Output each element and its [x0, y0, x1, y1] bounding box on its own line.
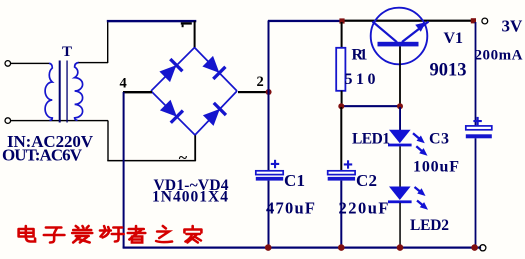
positive rail top left segment [268, 20, 342, 22]
bus junction C2 [338, 244, 345, 251]
svg-text:~: ~ [179, 149, 188, 166]
output terminal bottom [480, 245, 486, 251]
LED joining wire [399, 146, 401, 187]
wire bridge top lead [194, 21, 196, 48]
capacitor C2 plus [344, 160, 352, 168]
junction base node [397, 103, 403, 109]
node 4 wire [123, 91, 152, 93]
capacitor C3 plus [473, 117, 481, 125]
transistor collector diagonal [373, 22, 398, 43]
junction R1 top [339, 18, 344, 23]
output terminal top [482, 18, 488, 24]
LED2 bottom lead [399, 203, 401, 248]
wire AC return horizontal to bridge [107, 160, 196, 162]
wire AC return drop [107, 121, 108, 162]
char 子 [44, 228, 65, 243]
reference node wire [341, 105, 400, 107]
C1 bottom lead [268, 181, 270, 248]
svg-text:R1: R1 [352, 47, 368, 64]
svg-text:OUT:AC6V: OUT:AC6V [2, 146, 83, 165]
transformer T primary winding [45, 63, 52, 120]
LED1 top lead [399, 107, 401, 131]
LED2 arrow 1 [415, 187, 422, 192]
svg-text:3V: 3V [502, 17, 524, 36]
bridge edge top-left [151, 48, 195, 92]
svg-text:100uF: 100uF [413, 159, 459, 176]
bridge edge bottom-right [195, 91, 237, 135]
char 者 [128, 226, 146, 243]
LED2 cathode bar [388, 200, 412, 203]
LED1 triangle [389, 130, 411, 143]
capacitor C1 plus [271, 160, 279, 168]
bus junction C1 [265, 244, 272, 251]
LED2 triangle [389, 187, 411, 201]
capacitor C3 bottom plate [466, 134, 492, 138]
resistor R1 [336, 48, 345, 91]
bottom bus [123, 247, 482, 249]
char 家 [184, 226, 201, 243]
svg-text:1N4001X4: 1N4001X4 [152, 189, 228, 206]
bridge edge bottom-left [151, 91, 195, 135]
LED1 arrow 2 [416, 146, 423, 152]
svg-text:9013: 9013 [430, 61, 467, 81]
svg-text:220uF: 220uF [339, 199, 389, 218]
char 之 [156, 226, 172, 242]
wire top loop horizontal [107, 20, 197, 22]
capacitor C1 bottom plate [256, 177, 283, 181]
char 爱 [72, 226, 92, 243]
svg-text:200mA: 200mA [475, 48, 523, 64]
capacitor C2 bottom plate [328, 177, 355, 181]
svg-text:T: T [62, 44, 72, 60]
red site title 电子爱好者之家 [19, 226, 202, 243]
positive rail top right segment [342, 20, 474, 22]
transistor emitter arrow [415, 22, 426, 32]
bus junction LED [397, 244, 404, 251]
wire primary bottom / AC return [11, 120, 109, 121]
C3 top lead [475, 22, 477, 127]
svg-text:LED2: LED2 [410, 217, 449, 234]
node 2 junction dot [266, 89, 272, 95]
wire secondary riser [107, 21, 108, 63]
svg-text:4: 4 [120, 76, 127, 92]
char 电 [19, 226, 35, 242]
diode VD1 top-left [159, 58, 184, 83]
C2 top lead [340, 107, 342, 171]
svg-text:470uF: 470uF [266, 199, 315, 218]
transistor V1 circle [371, 8, 428, 65]
LED1 cathode bar [388, 144, 412, 147]
wire secondary top horizontal [79, 62, 109, 63]
transformer core line 1 [59, 61, 61, 123]
diode VD2 top-right [202, 55, 227, 80]
wire bridge bottom lead [194, 135, 196, 162]
C2 bottom lead [340, 181, 342, 248]
transformer core line 2 [66, 61, 67, 123]
junction R1 bottom [338, 103, 344, 109]
R1 bottom lead [341, 91, 343, 106]
terminal input bottom-left [5, 118, 11, 124]
R1 top lead [341, 22, 343, 48]
svg-text:C3: C3 [429, 131, 449, 148]
wire primary top [11, 63, 50, 64]
junction output [471, 18, 476, 23]
terminal input top-left [5, 61, 11, 67]
positive riser [268, 21, 270, 172]
char 好 [100, 226, 124, 242]
LED2 arrow 2 [417, 201, 424, 206]
diode VD3 bottom-left [159, 99, 184, 124]
svg-text:LED1: LED1 [352, 131, 390, 148]
negative rail [123, 92, 125, 248]
transistor emitter diagonal [402, 22, 429, 43]
svg-text:510: 510 [345, 71, 376, 88]
svg-text:C2: C2 [356, 171, 377, 190]
svg-text:2: 2 [257, 74, 264, 90]
transformer T secondary winding [75, 63, 83, 121]
bus junction C3 [471, 244, 478, 251]
AC mark top [181, 22, 192, 24]
svg-text:C1: C1 [284, 171, 305, 190]
node 2 wire [238, 91, 269, 93]
C3 bottom lead [475, 138, 477, 247]
LED1 arrow 1 [413, 133, 420, 139]
transistor base lead [399, 46, 401, 106]
bridge edge top-right [195, 48, 238, 92]
capacitor C2 top plate [328, 171, 355, 175]
transistor base bar [378, 42, 419, 47]
diode VD4 bottom-right [202, 102, 227, 127]
capacitor C1 top plate [256, 171, 283, 175]
svg-text:V1: V1 [444, 30, 464, 47]
capacitor C3 top plate [466, 126, 492, 130]
